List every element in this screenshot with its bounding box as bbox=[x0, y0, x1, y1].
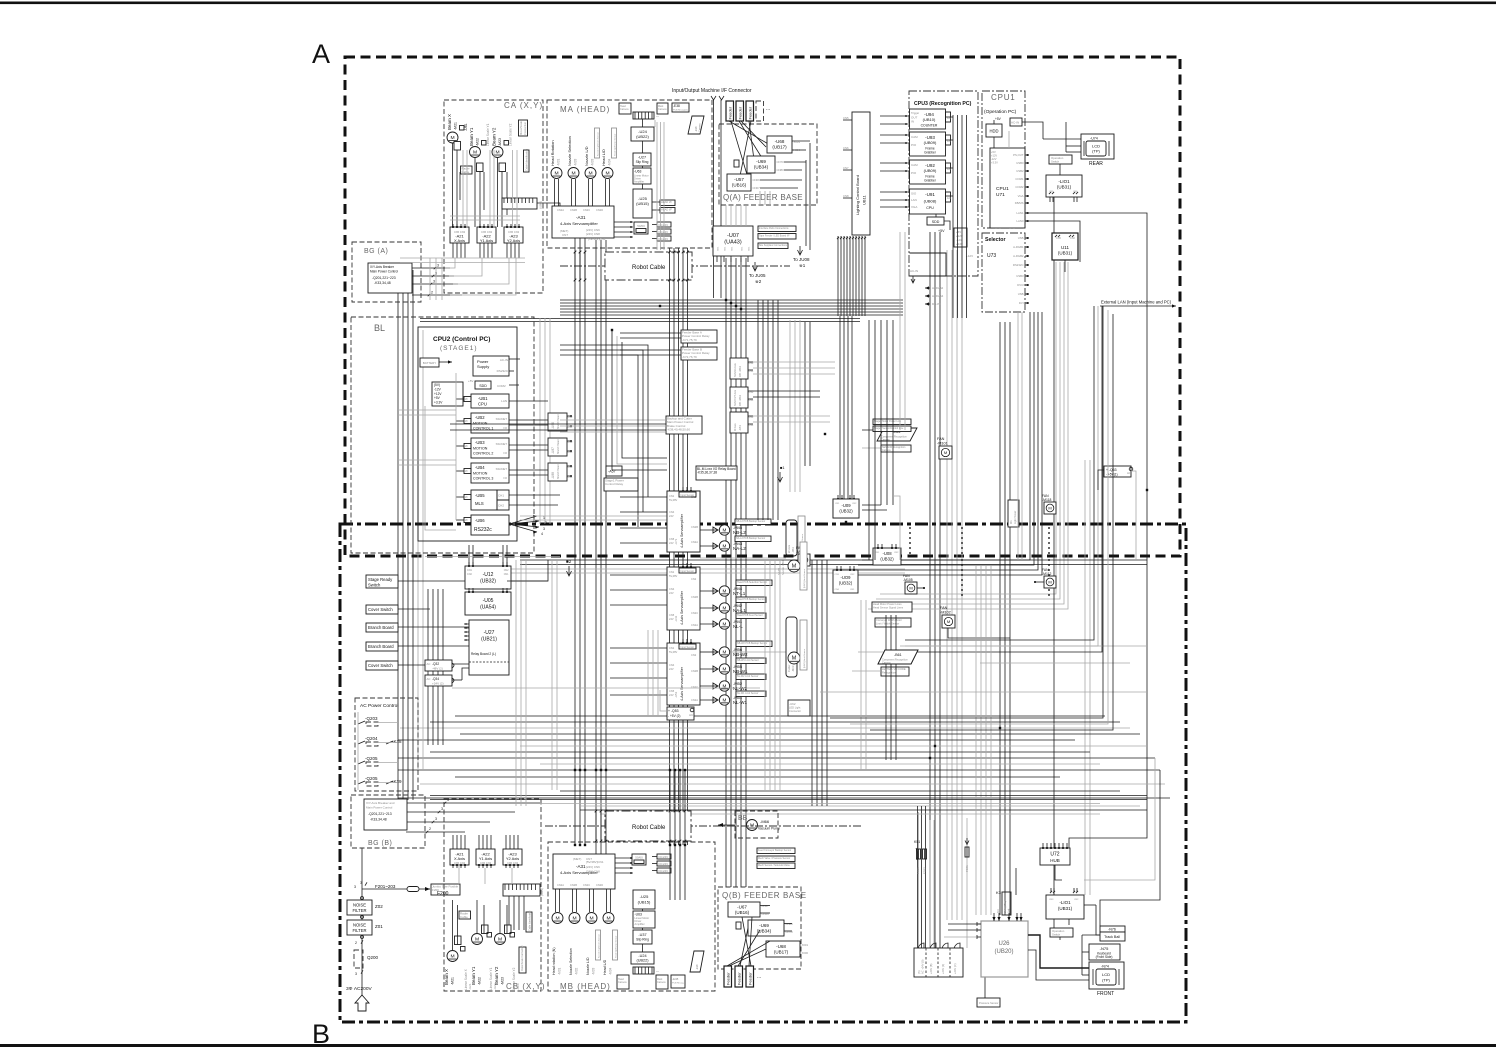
svg-text:CN70: CN70 bbox=[777, 160, 785, 164]
wire bundle: y520 horizontals bbox=[520, 519, 700, 521]
feeder-A crossing wires bbox=[729, 121, 770, 145]
svg-text:NB-W2 PCB Backup Sensor: NB-W2 PCB Backup Sensor bbox=[737, 642, 767, 645]
svg-text:2: 2 bbox=[429, 827, 431, 831]
wire bundle: right staircase nest 1 bbox=[862, 312, 1030, 560]
svg-text:M: M bbox=[723, 698, 727, 703]
svg-text:BG (B): BG (B) bbox=[368, 840, 392, 847]
io board -LIO1 (UB31) front bbox=[1046, 895, 1084, 919]
svg-text:MLS: MLS bbox=[475, 501, 484, 506]
svg-text:Motor/Scale Connection: Motor/Scale Connection bbox=[521, 945, 524, 971]
svg-text:-U63: -U63 bbox=[634, 170, 641, 174]
serial board -UB6 RS232c bbox=[471, 515, 509, 535]
amplifier -A23 Y2 Axis B bbox=[503, 849, 522, 865]
svg-text:X001: X001 bbox=[802, 943, 809, 947]
svg-text:CN5 CN3: CN5 CN3 bbox=[480, 861, 492, 865]
svg-text:A-RGB4: A-RGB4 bbox=[932, 294, 944, 298]
svg-text:CN2A: CN2A bbox=[557, 208, 564, 212]
wire bundle: CPU3 risers extension bbox=[952, 250, 954, 318]
CA connector strip bbox=[502, 198, 537, 209]
svg-text:M: M bbox=[723, 667, 727, 672]
svg-text:-Q34: -Q34 bbox=[432, 677, 439, 681]
svg-text:M: M bbox=[944, 450, 947, 455]
svg-text:REAR: REAR bbox=[1089, 161, 1103, 167]
motor drops to A31 bbox=[554, 179, 556, 206]
svg-text:M: M bbox=[723, 589, 727, 594]
svg-text:Head L/D: Head L/D bbox=[603, 959, 607, 975]
wire bundle: U07 feeder drop bbox=[725, 258, 727, 887]
sensor label M55 bbox=[736, 658, 766, 664]
svg-text:3: 3 bbox=[355, 972, 357, 976]
ethernet hub U72 bbox=[1040, 848, 1070, 865]
svg-text:To JU08: To JU08 bbox=[793, 257, 810, 262]
svg-text:4-Axis Servoamplifier: 4-Axis Servoamplifier bbox=[560, 221, 598, 226]
svg-text:-Q204: -Q204 bbox=[365, 736, 378, 741]
svg-text:-K72,76,79: -K72,76,79 bbox=[682, 355, 697, 359]
block AC power control bbox=[355, 698, 418, 791]
wire bundle: stage switch links bbox=[507, 560, 548, 581]
svg-text:Nd-B1: Nd-B1 bbox=[777, 567, 781, 575]
board -U67 (UB16) QB bbox=[728, 902, 760, 917]
svg-text:(UB17): (UB17) bbox=[772, 145, 787, 150]
CB connector strip bbox=[503, 884, 540, 896]
wire: F201 branch bbox=[362, 888, 407, 890]
svg-text:CN2: CN2 bbox=[894, 552, 899, 554]
connector strip below U24 MB bbox=[633, 967, 654, 974]
power unit -Q32 -48V bbox=[425, 660, 452, 671]
wire bundle: BG(A) outputs bbox=[412, 267, 450, 269]
svg-text:Branch Board: Branch Board bbox=[557, 464, 560, 479]
scale head S box Y2 bbox=[499, 163, 506, 172]
svg-text:CN4: CN4 bbox=[669, 510, 675, 514]
svg-text:Y1 Axis: Y1 Axis bbox=[480, 238, 493, 243]
linear driver -U63 MB bbox=[633, 911, 655, 928]
power unit -Q53 bbox=[667, 707, 694, 720]
junction dots on trunks bbox=[574, 769, 576, 771]
svg-text:CN2: CN2 bbox=[852, 503, 857, 505]
linear scale X B -U21 bbox=[461, 947, 466, 952]
svg-text:-M61: -M61 bbox=[791, 547, 795, 553]
block BB vacuum pump bbox=[735, 811, 778, 838]
svg-text:CN2: CN2 bbox=[1070, 237, 1075, 240]
wires MA to robot cable bbox=[642, 166, 644, 168]
wire bundle: robot-cable verticals right bbox=[595, 240, 597, 880]
svg-text:HEAD I/F: HEAD I/F bbox=[661, 208, 672, 212]
svg-text:(UB32): (UB32) bbox=[480, 579, 496, 585]
svg-text:2: 2 bbox=[431, 291, 433, 295]
svg-text:+12V: +12V bbox=[966, 254, 973, 258]
wire bundle: right horizontals B1 bbox=[905, 645, 1147, 647]
svg-text:CN2: CN2 bbox=[749, 362, 754, 365]
wire bundle: right staircase nest 3 bbox=[905, 306, 1094, 640]
svg-text:CN2C: CN2C bbox=[583, 208, 590, 212]
svg-text:Q(A) FEEDER BASE: Q(A) FEEDER BASE bbox=[723, 193, 803, 202]
svg-text:(UB15): (UB15) bbox=[638, 900, 651, 905]
svg-text:CN2: CN2 bbox=[749, 416, 754, 419]
svg-text:VGA: VGA bbox=[911, 205, 917, 209]
svg-text:+3.3V: +3.3V bbox=[434, 401, 443, 405]
svg-text:+24V (2): +24V (2) bbox=[432, 682, 444, 686]
svg-text:Control Relay: Control Relay bbox=[605, 482, 624, 486]
linear scale Y2 -U63 bbox=[504, 141, 509, 146]
svg-text:-12V: -12V bbox=[991, 157, 997, 161]
svg-text:-U37: -U37 bbox=[638, 933, 646, 937]
wire: AC control long horizontal bbox=[452, 687, 760, 689]
svg-text:-U69: -U69 bbox=[759, 923, 769, 928]
U07 side note labels bbox=[758, 226, 796, 232]
svg-text:Input Sensor: Input Sensor bbox=[681, 646, 695, 649]
50/60 converter MA bbox=[634, 222, 648, 234]
svg-text:+5V: +5V bbox=[938, 229, 945, 233]
svg-text:-U87: -U87 bbox=[551, 447, 555, 454]
svg-text:CN2: CN2 bbox=[691, 577, 697, 581]
svg-text:CN2: CN2 bbox=[1074, 899, 1079, 901]
svg-text:5V,48V: 5V,48V bbox=[669, 574, 678, 578]
counter board -U94 (UB10) bbox=[910, 109, 946, 129]
wire bundle: relay feed verticals A2 bbox=[789, 320, 791, 492]
svg-text:124: 124 bbox=[947, 117, 952, 120]
svg-text:CAM: CAM bbox=[911, 135, 918, 139]
svg-text:-UB3: -UB3 bbox=[475, 440, 485, 445]
wire bundle: QA-U07 link verticals bbox=[725, 205, 727, 226]
wire: QA pins to right rail bbox=[792, 140, 810, 142]
motor M21 Beam X bbox=[447, 132, 458, 143]
svg-text:IN: IN bbox=[911, 120, 914, 124]
B-side board -U08 (UB32) bbox=[873, 548, 901, 565]
svg-text:CN1: CN1 bbox=[850, 589, 855, 591]
svg-text:-M105: -M105 bbox=[903, 578, 913, 582]
svg-text:3: 3 bbox=[433, 280, 435, 284]
board -U69 (UB34) QB bbox=[748, 920, 784, 936]
wire: LAN0 run bbox=[1025, 221, 1080, 262]
breaker-A output slashes bbox=[434, 267, 436, 269]
stage relay -A57 bbox=[606, 466, 622, 476]
svg-text:A-RGB1: A-RGB1 bbox=[1013, 245, 1024, 249]
block CB (X,Y) bbox=[444, 799, 541, 991]
mech control labels B bbox=[757, 848, 795, 854]
feed to LCD bbox=[1043, 138, 1081, 140]
svg-text:X000: X000 bbox=[794, 148, 801, 152]
motion control 3 -UB4 bbox=[471, 463, 509, 483]
svg-text:Slip Ring: Slip Ring bbox=[636, 938, 649, 942]
wire bundle: left vertical rail bbox=[397, 270, 399, 800]
svg-text:CN1: CN1 bbox=[669, 646, 675, 650]
svg-text:Branch Board: Branch Board bbox=[557, 439, 560, 454]
svg-text:CAM: CAM bbox=[911, 163, 918, 167]
svg-text:24V: 24V bbox=[669, 591, 674, 595]
svg-text:-U27: -U27 bbox=[638, 156, 646, 160]
motor M33b nozzle L/D bbox=[585, 168, 596, 179]
motor M21 Beam X B bbox=[447, 951, 458, 962]
page top border bar bbox=[0, 2, 1496, 5]
svg-text:U26: U26 bbox=[998, 941, 1010, 947]
svg-text:...: ... bbox=[766, 106, 770, 112]
breaker-B output slashes bbox=[444, 802, 446, 804]
svg-text:W-Axis: W-Axis bbox=[734, 423, 737, 431]
svg-text:NOISE: NOISE bbox=[353, 903, 366, 908]
svg-text:-U63: -U63 bbox=[635, 913, 642, 917]
wire bundle: CA collector horizontals bbox=[400, 257, 525, 259]
svg-text:-M22: -M22 bbox=[476, 138, 480, 146]
svg-text:(UB32): (UB32) bbox=[839, 509, 853, 514]
svg-text:+5V: +5V bbox=[995, 117, 1002, 121]
CPU3 internal risers bbox=[952, 115, 954, 250]
sensor label M56 bbox=[736, 641, 772, 647]
svg-text:-UB1: -UB1 bbox=[478, 396, 488, 401]
svg-text:(UB08): (UB08) bbox=[924, 199, 937, 204]
svg-text:DC24V: DC24V bbox=[659, 855, 669, 859]
svg-text:+5V: +5V bbox=[434, 396, 441, 400]
robot cable A bbox=[605, 252, 692, 280]
wire bundle: B-region center verticals bbox=[764, 560, 766, 790]
svg-text:AC: AC bbox=[427, 662, 431, 666]
wire: HUB drop bbox=[1055, 865, 1062, 880]
svg-text:Branch Board: Branch Board bbox=[368, 644, 394, 649]
svg-text:SSCNET: SSCNET bbox=[496, 417, 508, 421]
svg-text:CN2A: CN2A bbox=[691, 698, 698, 702]
svg-text:Amplifier: Amplifier bbox=[634, 180, 644, 184]
power supply CPU2 bbox=[473, 356, 509, 376]
svg-text:NB-W1: NB-W1 bbox=[733, 669, 748, 674]
svg-text:External LAN (Input Machine an: External LAN (Input Machine and PC) bbox=[1101, 300, 1172, 305]
branch board 1 bbox=[366, 623, 398, 632]
svg-text:Nozzle L/D: Nozzle L/D bbox=[584, 146, 589, 166]
svg-text:(S): (S) bbox=[917, 970, 921, 974]
svg-text:-N75: -N75 bbox=[1100, 946, 1109, 951]
svg-text:COM1: COM1 bbox=[1015, 177, 1024, 181]
wire: U26 bottom to pressure sensor bbox=[984, 977, 986, 998]
svg-text:AC-IN: AC-IN bbox=[910, 269, 918, 273]
svg-text:3: 3 bbox=[437, 264, 439, 268]
io board -U12 (UB32) bbox=[465, 566, 511, 589]
svg-text:-UB6: -UB6 bbox=[475, 518, 485, 523]
svg-text:CN2A: CN2A bbox=[691, 540, 698, 544]
wire bundle: left rail gray bbox=[417, 330, 419, 770]
svg-text:(TP): (TP) bbox=[1102, 978, 1110, 983]
svg-text:USB3: USB3 bbox=[1016, 274, 1024, 278]
wire bundle: breaker-B outputs bbox=[406, 802, 540, 804]
svg-text:NL-W2: NL-W2 bbox=[733, 686, 747, 691]
svg-text:Switch: Switch bbox=[368, 583, 381, 588]
svg-text:CN6: CN6 bbox=[1073, 191, 1078, 193]
svg-text:Feed Conveyor Backup Sensor: Feed Conveyor Backup Sensor bbox=[758, 849, 791, 852]
svg-text:U73: U73 bbox=[987, 253, 996, 259]
wire: F041 drop bbox=[966, 818, 968, 948]
svg-text:DVI: DVI bbox=[1019, 301, 1024, 305]
svg-text:Head PCB Selection Sensor: Head PCB Selection Sensor bbox=[737, 581, 767, 584]
feeder-B crossing wires bbox=[727, 941, 770, 966]
svg-text:-M33: -M33 bbox=[591, 159, 595, 166]
motor drops MB bbox=[555, 889, 557, 912]
motor M41 NL-L bbox=[700, 623, 718, 625]
svg-text:-U05: -U05 bbox=[483, 598, 494, 604]
svg-text:CN1: CN1 bbox=[835, 503, 840, 505]
svg-text:Supply: Supply bbox=[477, 364, 489, 369]
svg-text:SDD: SDD bbox=[479, 384, 487, 388]
svg-text:+24V (C): +24V (C) bbox=[953, 963, 957, 974]
svg-text:50/60: 50/60 bbox=[637, 224, 645, 228]
wire bundle: feeder-base relay feeds bbox=[620, 332, 681, 334]
svg-text:-U23: -U23 bbox=[516, 983, 520, 990]
A31-MB right pins to U25 bbox=[615, 857, 633, 859]
svg-text:CN1: CN1 bbox=[725, 246, 727, 251]
svg-text:Cable: Cable bbox=[460, 915, 468, 919]
svg-text:- +5V (2): - +5V (2) bbox=[668, 714, 681, 718]
svg-text:CN3: CN3 bbox=[1049, 899, 1054, 901]
svg-text:(UB09): (UB09) bbox=[924, 168, 937, 173]
amplifier -A23 Y2 Axis bbox=[504, 227, 523, 243]
svg-text:CN2C: CN2C bbox=[583, 883, 590, 887]
svg-text:-M118: -M118 bbox=[1042, 498, 1051, 502]
svg-text:NT-L1: NT-L1 bbox=[733, 591, 746, 596]
svg-text:-M23: -M23 bbox=[498, 138, 502, 146]
svg-text:-M66: -M66 bbox=[760, 819, 770, 824]
svg-text:Grabber: Grabber bbox=[924, 179, 937, 183]
svg-text:PS,OUT: PS,OUT bbox=[1013, 153, 1024, 157]
svg-text:-U61: -U61 bbox=[464, 123, 468, 131]
svg-text:CPU2 (Control PC): CPU2 (Control PC) bbox=[433, 336, 490, 343]
svg-text:3: 3 bbox=[354, 885, 356, 889]
amp output drops bbox=[452, 243, 454, 258]
wire bundle: nested loops center A2 bbox=[560, 345, 648, 497]
input sensor label A41 bbox=[679, 568, 696, 573]
operation switch (rear) bbox=[1049, 155, 1072, 164]
svg-text:CN4: CN4 bbox=[669, 663, 675, 667]
topcoat: servoamplifier A-stage bbox=[667, 491, 700, 552]
svg-text:-K29: -K29 bbox=[392, 779, 402, 784]
svg-text:LAN0: LAN0 bbox=[1017, 219, 1024, 223]
svg-text:Camera: Camera bbox=[699, 123, 702, 132]
svg-text:DC24V: DC24V bbox=[659, 862, 669, 866]
RS232c fanout arrows bbox=[509, 516, 537, 524]
wire bundle: big horizontal band y716-806 (staircase) bbox=[455, 715, 1105, 717]
svg-text:LAN: LAN bbox=[501, 399, 507, 403]
svg-text:CN2: CN2 bbox=[504, 569, 509, 572]
board -U68 (UB17) QB bbox=[766, 941, 800, 957]
svg-text:-A?1: -A?1 bbox=[674, 538, 678, 545]
svg-text:RS232C: RS232C bbox=[497, 369, 509, 373]
svg-text:CN2: CN2 bbox=[850, 574, 855, 576]
svg-text:24V: 24V bbox=[669, 667, 674, 671]
motor M22 Beam Y1 B bbox=[472, 934, 483, 945]
light tower R1 bbox=[1008, 500, 1019, 527]
svg-text:CN1: CN1 bbox=[875, 552, 880, 554]
camera -E38 MB bbox=[671, 975, 685, 988]
svg-text:AC-IN: AC-IN bbox=[1011, 121, 1019, 125]
svg-text:Camera: Camera bbox=[657, 981, 666, 984]
svg-text:(UB15): (UB15) bbox=[636, 201, 649, 206]
block MA (HEAD) bbox=[547, 100, 712, 248]
svg-text:[UB/S] Limit Sensor: [UB/S] Limit Sensor bbox=[803, 649, 806, 668]
SDD CPU3 bbox=[927, 217, 944, 225]
svg-text:CN3: CN3 bbox=[835, 574, 840, 576]
svg-text:M: M bbox=[723, 650, 727, 655]
svg-text:-M21: -M21 bbox=[451, 977, 455, 985]
svg-text:UB11: UB11 bbox=[862, 195, 867, 205]
wire bundle: U12 pin drops bbox=[468, 545, 470, 566]
svg-text:Beam X: Beam X bbox=[444, 969, 449, 985]
svg-text:3Φ AC200V: 3Φ AC200V bbox=[346, 986, 372, 992]
svg-text:DVI3: DVI3 bbox=[1017, 283, 1024, 287]
svg-text:Selector: Selector bbox=[985, 237, 1005, 243]
wires BG(A) to CA amps bbox=[445, 258, 455, 268]
svg-text:NA-L1: NA-L1 bbox=[733, 608, 746, 613]
svg-text:Slip Ring: Slip Ring bbox=[636, 160, 649, 164]
svg-text:Lighting Control Board: Lighting Control Board bbox=[855, 175, 860, 215]
svg-text:CN1: CN1 bbox=[669, 494, 675, 498]
svg-text:CA (X,Y): CA (X,Y) bbox=[504, 101, 543, 110]
svg-text:(UB09): (UB09) bbox=[924, 140, 937, 145]
svg-text:M: M bbox=[909, 586, 912, 591]
svg-text:(STAGE1): (STAGE1) bbox=[440, 345, 478, 352]
wire bundle: QA right side drop bbox=[809, 143, 811, 250]
wire bundle: right loops lower bbox=[1084, 758, 1155, 880]
svg-text:(UB20): (UB20) bbox=[994, 949, 1013, 955]
svg-text:CN4: CN4 bbox=[669, 587, 675, 591]
PCB recognition -E38 label bbox=[672, 103, 689, 112]
svg-text:-M101: -M101 bbox=[937, 442, 948, 446]
wire bundle: lighting outputs continue to UO9 bbox=[839, 316, 841, 499]
wire bundle: Selector drop verticals bbox=[1017, 312, 1019, 560]
frame grabber -U93 (UB09) bbox=[910, 132, 946, 156]
topcoat: A-side board -U09 (UB32) bbox=[833, 499, 859, 518]
svg-text:Trigger: Trigger bbox=[911, 111, 919, 115]
CB vertical note boxes bbox=[526, 912, 532, 932]
svg-text:Mech Valve / Pressure Sensor: Mech Valve / Pressure Sensor bbox=[758, 857, 790, 860]
svg-text:X/Y-Axis Breaker and: X/Y-Axis Breaker and bbox=[366, 801, 395, 805]
svg-text:CN5: CN5 bbox=[1049, 191, 1054, 193]
linear scale Y1 -U62 bbox=[482, 141, 487, 146]
svg-text:+ -Q63: + -Q63 bbox=[1106, 468, 1117, 472]
svg-text:USB0: USB0 bbox=[1016, 161, 1024, 165]
SSCNET repeater boxes bbox=[548, 413, 567, 431]
board -U57 (UB16) QA bbox=[727, 174, 751, 191]
svg-text:+ -Q53: + -Q53 bbox=[668, 709, 679, 713]
A-side board -U09 (UB32) bbox=[833, 499, 859, 518]
svg-text:Z01: Z01 bbox=[375, 924, 383, 929]
B-side board -UO9 (UB32) bbox=[833, 570, 858, 593]
svg-text:24V: 24V bbox=[669, 617, 674, 621]
amp top feeds CB bbox=[452, 835, 454, 849]
svg-text:+24V (B): +24V (B) bbox=[929, 964, 933, 974]
main io board U26 (UB20) bbox=[981, 921, 1028, 977]
AC control bus bbox=[357, 712, 359, 790]
scale head S box Y1 B bbox=[482, 925, 489, 934]
svg-text:Beam Y1: Beam Y1 bbox=[471, 966, 476, 985]
sensor label M45 bbox=[735, 519, 771, 525]
svg-text:M: M bbox=[723, 528, 727, 533]
DC24V stub labels MA bbox=[657, 222, 671, 227]
board notes B servo bbox=[872, 602, 912, 612]
svg-text:CN5: CN5 bbox=[669, 689, 675, 693]
svg-text:-M22: -M22 bbox=[478, 977, 482, 985]
wires U27 to Q units bbox=[452, 663, 469, 665]
wire bundle: lighting board outputs bbox=[837, 236, 839, 316]
svg-text:-U24: -U24 bbox=[638, 954, 646, 958]
svg-text:Cover Switch: Cover Switch bbox=[368, 607, 393, 612]
svg-text:■1: ■1 bbox=[780, 465, 785, 470]
interface -U24 (UB22) MB bbox=[631, 952, 654, 964]
topcoat: camera -B61 B-side bbox=[878, 650, 918, 664]
power unit -Q63 bbox=[1104, 466, 1131, 477]
svg-text:2: 2 bbox=[355, 941, 357, 945]
servoamplifier -A51 bbox=[667, 643, 700, 705]
svg-text:CN5: CN5 bbox=[669, 537, 675, 541]
svg-text:Camera: Camera bbox=[881, 439, 890, 442]
svg-text:Tape Feeder / LED Board I/F: Tape Feeder / LED Board I/F bbox=[759, 235, 790, 238]
svg-text:+12V: +12V bbox=[434, 392, 442, 396]
motor M34 MB bbox=[603, 913, 614, 924]
svg-text:...: ... bbox=[656, 968, 659, 973]
